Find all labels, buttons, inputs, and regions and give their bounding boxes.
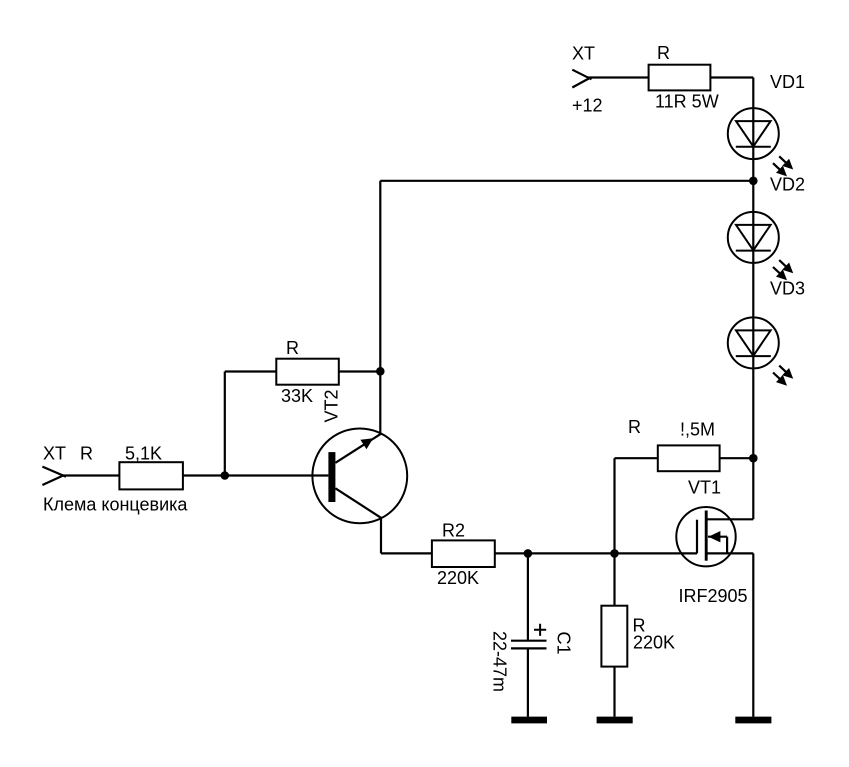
junction: collector / feedback node (376, 367, 385, 376)
junction: base / feedback node (221, 471, 230, 480)
wire: R2 to C1 node (495, 552, 615, 554)
connector XT (limit switch) (42, 467, 66, 485)
resistor R (11R 5W) (649, 65, 711, 91)
svg-text:VT2: VT2 (322, 389, 342, 422)
svg-text:R: R (657, 43, 670, 63)
LED VD2 (728, 212, 779, 263)
svg-text:R: R (286, 338, 299, 358)
svg-text:+12: +12 (572, 96, 603, 116)
svg-text:R: R (80, 444, 93, 464)
ground (C1) (511, 717, 547, 724)
light emission arrows VD3 (773, 366, 793, 386)
LED VD3 (728, 317, 779, 368)
resistor R2 (220K) (432, 540, 495, 567)
wire: R 11R to LED anode rail (710, 76, 753, 78)
wire: R 33K right to collector (339, 370, 381, 372)
junction: drain / LED rail node (749, 454, 758, 463)
LED VD1 (728, 108, 779, 159)
transistor VT1 (MOSFET) (676, 507, 735, 566)
svg-text:33K: 33K (281, 386, 313, 406)
ground (R 220K) (597, 717, 633, 724)
wire: VT2 collector vertical (379, 181, 381, 434)
svg-text:C1: C1 (554, 632, 574, 655)
svg-text:5,1K: 5,1K (125, 444, 162, 464)
svg-text:220K: 220K (633, 633, 675, 653)
svg-text:R2: R2 (442, 521, 465, 541)
light emission arrows VD2 (773, 260, 793, 280)
junction: gate node (610, 549, 619, 558)
light emission arrows VD1 (773, 156, 793, 176)
wire: R 220K to ground (613, 667, 615, 717)
wire: VT2 emitter vertical (380, 518, 382, 554)
svg-text:11R 5W: 11R 5W (655, 92, 719, 112)
wire: gate node to VT1 gate (615, 552, 698, 554)
svg-text:Клема концевика: Клема концевика (43, 495, 188, 515)
junction: LED rail / VT2 collector node (749, 177, 758, 186)
svg-text:XT: XT (572, 44, 595, 64)
resistor R (5,1K) (119, 462, 182, 489)
connector XT (+12 input) (572, 70, 591, 88)
wire: VT1 source horizontal (706, 552, 753, 554)
wire: R 1,5M right to drain rail (720, 457, 754, 459)
wire: LED chain vertical rail (752, 78, 754, 520)
wire: R 5,1K to VT2 base (183, 474, 329, 476)
svg-text:R: R (628, 417, 641, 437)
svg-text:VD1: VD1 (770, 72, 805, 92)
svg-text:220K: 220K (437, 568, 479, 588)
svg-text:!,5M: !,5M (680, 420, 715, 440)
wire: to R 1,5M left (615, 457, 658, 459)
capacitor C1 plates (511, 641, 547, 649)
wire: to R 33K left (225, 370, 276, 372)
wire: XT to R 11R (587, 76, 649, 78)
wire: collector node horizontal run (380, 180, 753, 182)
svg-text:VD3: VD3 (770, 278, 805, 298)
svg-text:XT: XT (43, 444, 66, 464)
wire: C1 bottom lead (527, 648, 529, 716)
wire: source down to ground (752, 553, 754, 716)
junction: C1 node (524, 549, 533, 558)
wire: gate node up to R 1,5M (613, 458, 615, 553)
wire: XT to R 5,1K (62, 474, 119, 476)
resistor R (!,5M) (658, 445, 720, 471)
transistor VT2 (312, 429, 407, 524)
polarity + of C1 (534, 624, 546, 636)
resistor R (33K) (276, 359, 339, 385)
resistor R (220K vertical) (601, 606, 627, 667)
ground (VT1 source) (735, 717, 771, 724)
wire: feedback vertical to R 33K (224, 372, 226, 476)
wire: VT1 drain horizontal (706, 518, 753, 520)
svg-text:VT1: VT1 (688, 478, 721, 498)
svg-text:VD2: VD2 (770, 174, 805, 194)
svg-text:IRF2905: IRF2905 (679, 586, 748, 606)
wire: gate node down to R 220K (613, 553, 615, 605)
wire: emitter to R2 (381, 552, 432, 554)
wire: C1 top lead (527, 553, 529, 640)
svg-text:22-47m: 22-47m (490, 631, 510, 692)
